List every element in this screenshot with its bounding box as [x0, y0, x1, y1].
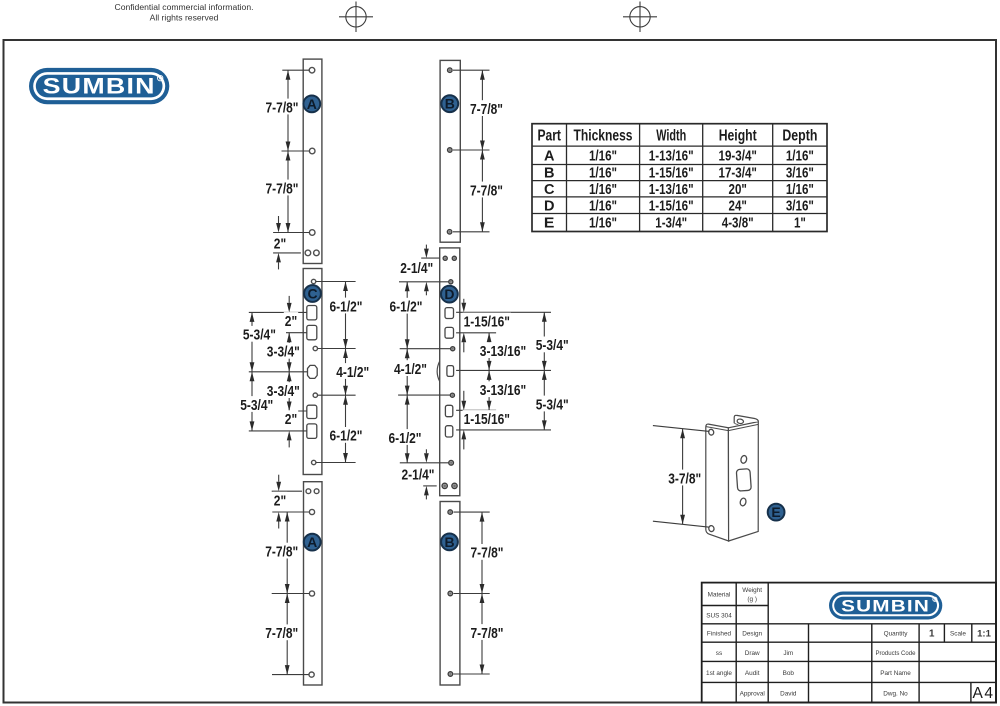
plate C dimension 5-3/4 upper: [251, 312, 253, 371]
label badge A (top): [303, 96, 320, 113]
svg-text:24": 24": [729, 198, 747, 214]
svg-text:Depth: Depth: [782, 127, 817, 144]
plate D dim label 6-1/2 lower: [388, 429, 423, 445]
plate A extension lines: [282, 69, 309, 71]
plate D hole 1b: [452, 256, 456, 260]
svg-text:19-3/4": 19-3/4": [719, 148, 757, 164]
svg-text:SUMBIN: SUMBIN: [841, 596, 930, 615]
svg-text:1-15/16": 1-15/16": [649, 198, 694, 214]
plate B top view: [440, 60, 460, 242]
plate D 1-15/16 outside arrows upper: [461, 303, 466, 313]
plate A dimension 7-7/8 upper: [287, 70, 289, 151]
part E face hole lower: [739, 498, 746, 507]
svg-text:B: B: [445, 96, 455, 112]
svg-text:E: E: [771, 504, 780, 520]
part E top tab: [734, 415, 758, 423]
svg-text:Weight: Weight: [742, 587, 762, 594]
plate D view: [440, 248, 460, 496]
svg-text:1/16": 1/16": [589, 166, 617, 182]
svg-text:4-1/2": 4-1/2": [336, 364, 369, 381]
part E front face top thickness line: [728, 424, 758, 430]
svg-text:4-3/8": 4-3/8": [722, 216, 754, 232]
svg-text:1-15/16": 1-15/16": [464, 313, 510, 330]
plate D edge tab arc: [437, 361, 440, 381]
part E left flange thickness line: [706, 427, 728, 431]
part E flange hole lower: [708, 525, 714, 532]
plate D dim label 5-3/4 upper: [535, 337, 570, 353]
svg-text:2-1/4": 2-1/4": [400, 260, 433, 277]
svg-text:5-3/4": 5-3/4": [536, 337, 569, 354]
plate C dimension 6-1/2 lower: [345, 395, 347, 462]
plate C dim label 3-3/4 lower: [266, 382, 301, 398]
plate D left extension lines: [421, 257, 440, 259]
label badge B (bottom): [441, 534, 458, 551]
plate A hole 3: [309, 230, 315, 236]
svg-text:1": 1": [794, 216, 806, 232]
plate B bottom dimension 7-7/8 upper: [481, 512, 483, 593]
svg-text:3-3/4": 3-3/4": [267, 344, 300, 361]
plate A bottom dim label 2: [273, 492, 287, 508]
plate C dim label 2 lower: [284, 410, 298, 426]
svg-text:Scale: Scale: [950, 631, 966, 638]
plate A bottom hole 1a: [306, 489, 311, 494]
plate A bottom dim label 7-7/8 lower: [264, 624, 299, 640]
plate A bottom hole 3: [309, 591, 314, 596]
svg-text:1-15/16": 1-15/16": [464, 411, 510, 428]
plate C dim label 4-1/2: [335, 363, 370, 379]
plate D dimension 3-13/16 lower: [488, 370, 490, 410]
plate C dim label 2 upper: [284, 312, 298, 328]
part E isometric view: [706, 415, 759, 541]
svg-text:7-7/8": 7-7/8": [265, 543, 298, 560]
plate A dimension 7-7/8 lower: [287, 151, 289, 233]
plate B dimension 7-7/8 lower: [481, 150, 483, 232]
plate A hole 2: [309, 148, 315, 154]
svg-text:Material: Material: [708, 592, 731, 599]
svg-text:2-1/4": 2-1/4": [402, 466, 435, 483]
svg-text:7-7/8": 7-7/8": [471, 625, 504, 642]
svg-text:7-7/8": 7-7/8": [470, 101, 503, 118]
svg-text:1/16": 1/16": [589, 182, 617, 198]
plate C cutout 3: [307, 405, 317, 418]
svg-text:Width: Width: [656, 127, 686, 144]
plate D dim label 1-15/16 lower: [463, 410, 511, 426]
plate B bottom hole 1: [448, 510, 453, 515]
plate C cutout 1: [307, 306, 317, 320]
svg-text:C: C: [307, 286, 317, 302]
svg-text:A4: A4: [973, 685, 995, 702]
plate B bottom hole 3: [448, 672, 453, 677]
label badge E: [768, 504, 785, 521]
plate D dimension 6-1/2 lower: [406, 395, 408, 463]
plate B dimension 7-7/8 upper: [481, 70, 483, 150]
svg-text:1-15/16": 1-15/16": [649, 166, 694, 182]
svg-text:7-7/8": 7-7/8": [266, 180, 299, 197]
plate C hole 2: [313, 346, 317, 350]
plate B hole 3: [447, 230, 452, 235]
plate D dimension 5-3/4 upper: [543, 312, 545, 370]
svg-text:All rights reserved: All rights reserved: [150, 13, 219, 23]
plate D dimension 4-1/2: [406, 349, 408, 395]
svg-text:Part: Part: [537, 127, 561, 144]
plate C cutout 4: [307, 424, 317, 439]
plate C dim label 6-1/2 upper: [329, 298, 364, 314]
part E face hole upper: [740, 455, 747, 464]
plate A bottom 2-inch outside arrows: [276, 482, 281, 492]
svg-text:5-3/4": 5-3/4": [536, 396, 569, 413]
svg-text:1-3/4": 1-3/4": [655, 216, 687, 232]
svg-text:4-1/2": 4-1/2": [394, 361, 427, 378]
svg-text:Approval: Approval: [740, 691, 765, 698]
plate D dim label 3-13/16 upper: [479, 342, 527, 358]
svg-text:17-3/4": 17-3/4": [719, 166, 757, 182]
plate C dim label 3-3/4 upper: [266, 343, 301, 359]
svg-text:2": 2": [285, 411, 297, 428]
svg-text:Finished: Finished: [707, 631, 732, 638]
plate D right extension lines: [456, 311, 551, 313]
svg-text:A: A: [307, 96, 317, 112]
plate C right extension lines: [316, 281, 356, 283]
plate A bottom dimension 7-7/8 lower: [286, 594, 288, 675]
plate B bottom hole 2: [448, 591, 453, 596]
plate A 2-inch outside arrows: [276, 223, 281, 233]
plate C dimension 3-3/4 lower: [288, 372, 290, 411]
plate C dimension 6-1/2 upper: [345, 282, 347, 349]
SUMBIN logo (title block): [829, 592, 942, 620]
svg-text:1st angle: 1st angle: [706, 670, 732, 677]
plate D dimension 6-1/2 upper: [406, 282, 408, 349]
svg-text:E: E: [544, 216, 555, 232]
plate C left extension lines: [249, 311, 307, 313]
plate B dim label 7-7/8 lower: [469, 182, 504, 198]
part E face latch cutout: [736, 469, 751, 491]
svg-text:Products Code: Products Code: [876, 650, 916, 657]
parts table frame: [532, 124, 827, 232]
plate D hole 2: [449, 280, 453, 284]
svg-text:SUS 304: SUS 304: [706, 613, 732, 620]
label badge D: [441, 286, 458, 303]
svg-text:Confidential commercial inform: Confidential commercial information.: [115, 2, 254, 12]
svg-text:Audit: Audit: [745, 670, 760, 677]
part E top tab fold curve: [734, 423, 738, 424]
svg-text:6-1/2": 6-1/2": [390, 299, 423, 316]
svg-text:3-7/8": 3-7/8": [668, 470, 701, 487]
svg-text:Dwg. No: Dwg. No: [883, 691, 908, 698]
part E left flange face: [706, 424, 729, 541]
plate B bottom extension lines: [454, 511, 490, 513]
plate C hole 3: [313, 393, 317, 397]
svg-text:1-13/16": 1-13/16": [649, 148, 694, 164]
svg-text:D: D: [444, 286, 454, 302]
svg-text:7-7/8": 7-7/8": [265, 625, 298, 642]
svg-text:C: C: [544, 182, 555, 198]
svg-text:1/16": 1/16": [589, 148, 617, 164]
plate D dim label 3-13/16 lower: [479, 381, 527, 397]
plate D 2-1/4 outside arrows bottom: [424, 453, 429, 463]
plate D hole 5: [449, 460, 454, 465]
label badge C: [304, 285, 321, 302]
plate A dim label 7-7/8 lower: [265, 180, 300, 196]
plate D hole 6a: [442, 483, 447, 488]
plate B extension lines: [453, 69, 490, 71]
plate D dim label 5-3/4 lower: [535, 396, 570, 412]
part E front face: [728, 422, 758, 541]
plate D cutout 3: [445, 405, 452, 416]
svg-text:D: D: [544, 198, 555, 214]
plate B hole 1: [448, 68, 453, 73]
plate B bottom dim label 7-7/8 upper: [470, 544, 505, 560]
plate A hole 4b: [314, 250, 320, 256]
svg-text:2": 2": [274, 235, 286, 252]
svg-text:6-1/2": 6-1/2": [330, 428, 363, 445]
plate D cutout 1: [445, 308, 454, 319]
plate C hole 4: [312, 460, 316, 464]
svg-text:Part Name: Part Name: [880, 670, 911, 677]
plate D 1-15/16 outside arrows lower: [461, 401, 466, 411]
plate A bottom dim label 7-7/8 upper: [264, 543, 299, 559]
svg-text:7-7/8": 7-7/8": [471, 545, 504, 562]
svg-text:1/16": 1/16": [786, 182, 814, 198]
plate B bottom dim label 7-7/8 lower: [470, 624, 505, 640]
plate D cutout 2: [445, 327, 454, 338]
plate D dim label 4-1/2: [393, 360, 428, 376]
svg-text:7-7/8": 7-7/8": [470, 182, 503, 199]
svg-text:Quantity: Quantity: [884, 631, 909, 638]
plate C dim label 5-3/4 upper: [242, 326, 277, 342]
plate A hole 1: [309, 67, 315, 73]
plate D dimension 5-3/4 lower: [543, 370, 545, 430]
svg-text:1: 1: [929, 629, 935, 640]
plate A bottom hole 4: [309, 672, 314, 677]
svg-text:A: A: [307, 534, 317, 550]
svg-text:2": 2": [274, 493, 286, 510]
svg-text:SUMBIN: SUMBIN: [43, 74, 156, 99]
plate A top view: [303, 59, 322, 263]
svg-text:5-3/4": 5-3/4": [243, 327, 276, 344]
svg-text:ss: ss: [716, 650, 722, 657]
svg-text:Thickness: Thickness: [574, 127, 633, 144]
svg-text:David: David: [780, 691, 797, 698]
svg-text:Design: Design: [742, 631, 762, 638]
plate B bottom dimension 7-7/8 lower: [481, 594, 483, 675]
part E dimension 3-7/8: [682, 429, 684, 525]
plate C view: [303, 269, 322, 475]
plate C dimension 4-1/2: [345, 349, 347, 396]
svg-text:Jim: Jim: [783, 650, 793, 657]
part E dim label 3-7/8: [667, 470, 702, 486]
plate D dim label 2-1/4 lower: [401, 466, 436, 482]
svg-text:B: B: [444, 534, 454, 550]
svg-text:A: A: [544, 148, 555, 164]
svg-text:5-3/4": 5-3/4": [240, 397, 273, 414]
plate A bottom dimension 7-7/8 upper: [286, 512, 288, 594]
plate C 2-inch outside arrows: [287, 303, 292, 313]
plate C dimension 5-3/4 lower: [251, 372, 253, 431]
svg-text:1-13/16": 1-13/16": [649, 182, 694, 198]
svg-text:B: B: [544, 166, 555, 182]
svg-text:7-7/8": 7-7/8": [266, 99, 299, 116]
label badge A (bottom): [304, 534, 321, 551]
plate D dim label 6-1/2 upper: [389, 298, 424, 314]
svg-text:Draw: Draw: [745, 650, 760, 657]
plate A dim label 2: [273, 235, 287, 251]
plate D latch hole: [447, 366, 454, 377]
svg-text:20": 20": [729, 182, 747, 198]
svg-text:3/16": 3/16": [786, 166, 814, 182]
plate D dim label 1-15/16 upper: [463, 313, 511, 329]
plate A hole 4a: [305, 250, 311, 256]
svg-text:3-13/16": 3-13/16": [480, 382, 526, 399]
part E extension line upper: [653, 426, 710, 432]
svg-text:1:1: 1:1: [977, 629, 991, 640]
plate C dimension 3-3/4 upper: [288, 333, 290, 372]
plate A bottom view: [304, 482, 323, 685]
svg-text:3/16": 3/16": [786, 198, 814, 214]
part E flange hole upper: [708, 429, 714, 436]
part E extension line lower: [653, 521, 710, 527]
svg-text:Bob: Bob: [783, 670, 795, 677]
svg-text:2": 2": [285, 313, 297, 330]
plate D cutout 4: [445, 426, 452, 437]
plate C cutout 2: [307, 325, 317, 339]
plate D hole 1a: [443, 256, 447, 260]
svg-text:1/16": 1/16": [589, 216, 617, 232]
plate A bottom hole 2: [309, 509, 314, 514]
svg-text:Height: Height: [719, 127, 757, 144]
plate D hole 6b: [452, 483, 457, 488]
plate D dim label 2-1/4 upper: [399, 259, 434, 275]
part E top tab hole: [737, 419, 744, 425]
svg-text:(g ): (g ): [747, 596, 757, 603]
plate D hole 3: [451, 347, 455, 351]
plate D 2-1/4 outside arrows top: [424, 249, 429, 259]
registration mark 1: [339, 2, 373, 33]
svg-text:1/16": 1/16": [786, 148, 814, 164]
svg-text:6-1/2": 6-1/2": [389, 430, 422, 447]
plate C dim label 6-1/2 lower: [329, 427, 364, 443]
svg-text:6-1/2": 6-1/2": [330, 298, 363, 315]
plate B bottom view: [440, 502, 460, 686]
plate C dim label 5-3/4 lower: [239, 396, 274, 412]
plate D hole 4: [450, 393, 454, 397]
svg-text:1/16": 1/16": [589, 198, 617, 214]
title block frame: [702, 583, 996, 703]
plate C hole 1: [311, 279, 315, 283]
plate B dim label 7-7/8 upper: [469, 100, 504, 116]
plate A dim label 7-7/8 upper: [265, 99, 300, 115]
plate D dimension 3-13/16 upper: [488, 333, 490, 371]
plate A bottom hole 1b: [314, 489, 319, 494]
svg-text:R: R: [159, 76, 162, 81]
SUMBIN logo (main): [29, 68, 169, 104]
label badge B (top): [441, 95, 458, 112]
registration mark 2: [623, 2, 657, 33]
plate A bottom extension lines: [272, 490, 302, 492]
plate C latch hole (hex): [308, 365, 318, 378]
plate B hole 2: [448, 148, 453, 153]
svg-text:3-13/16": 3-13/16": [480, 343, 526, 360]
